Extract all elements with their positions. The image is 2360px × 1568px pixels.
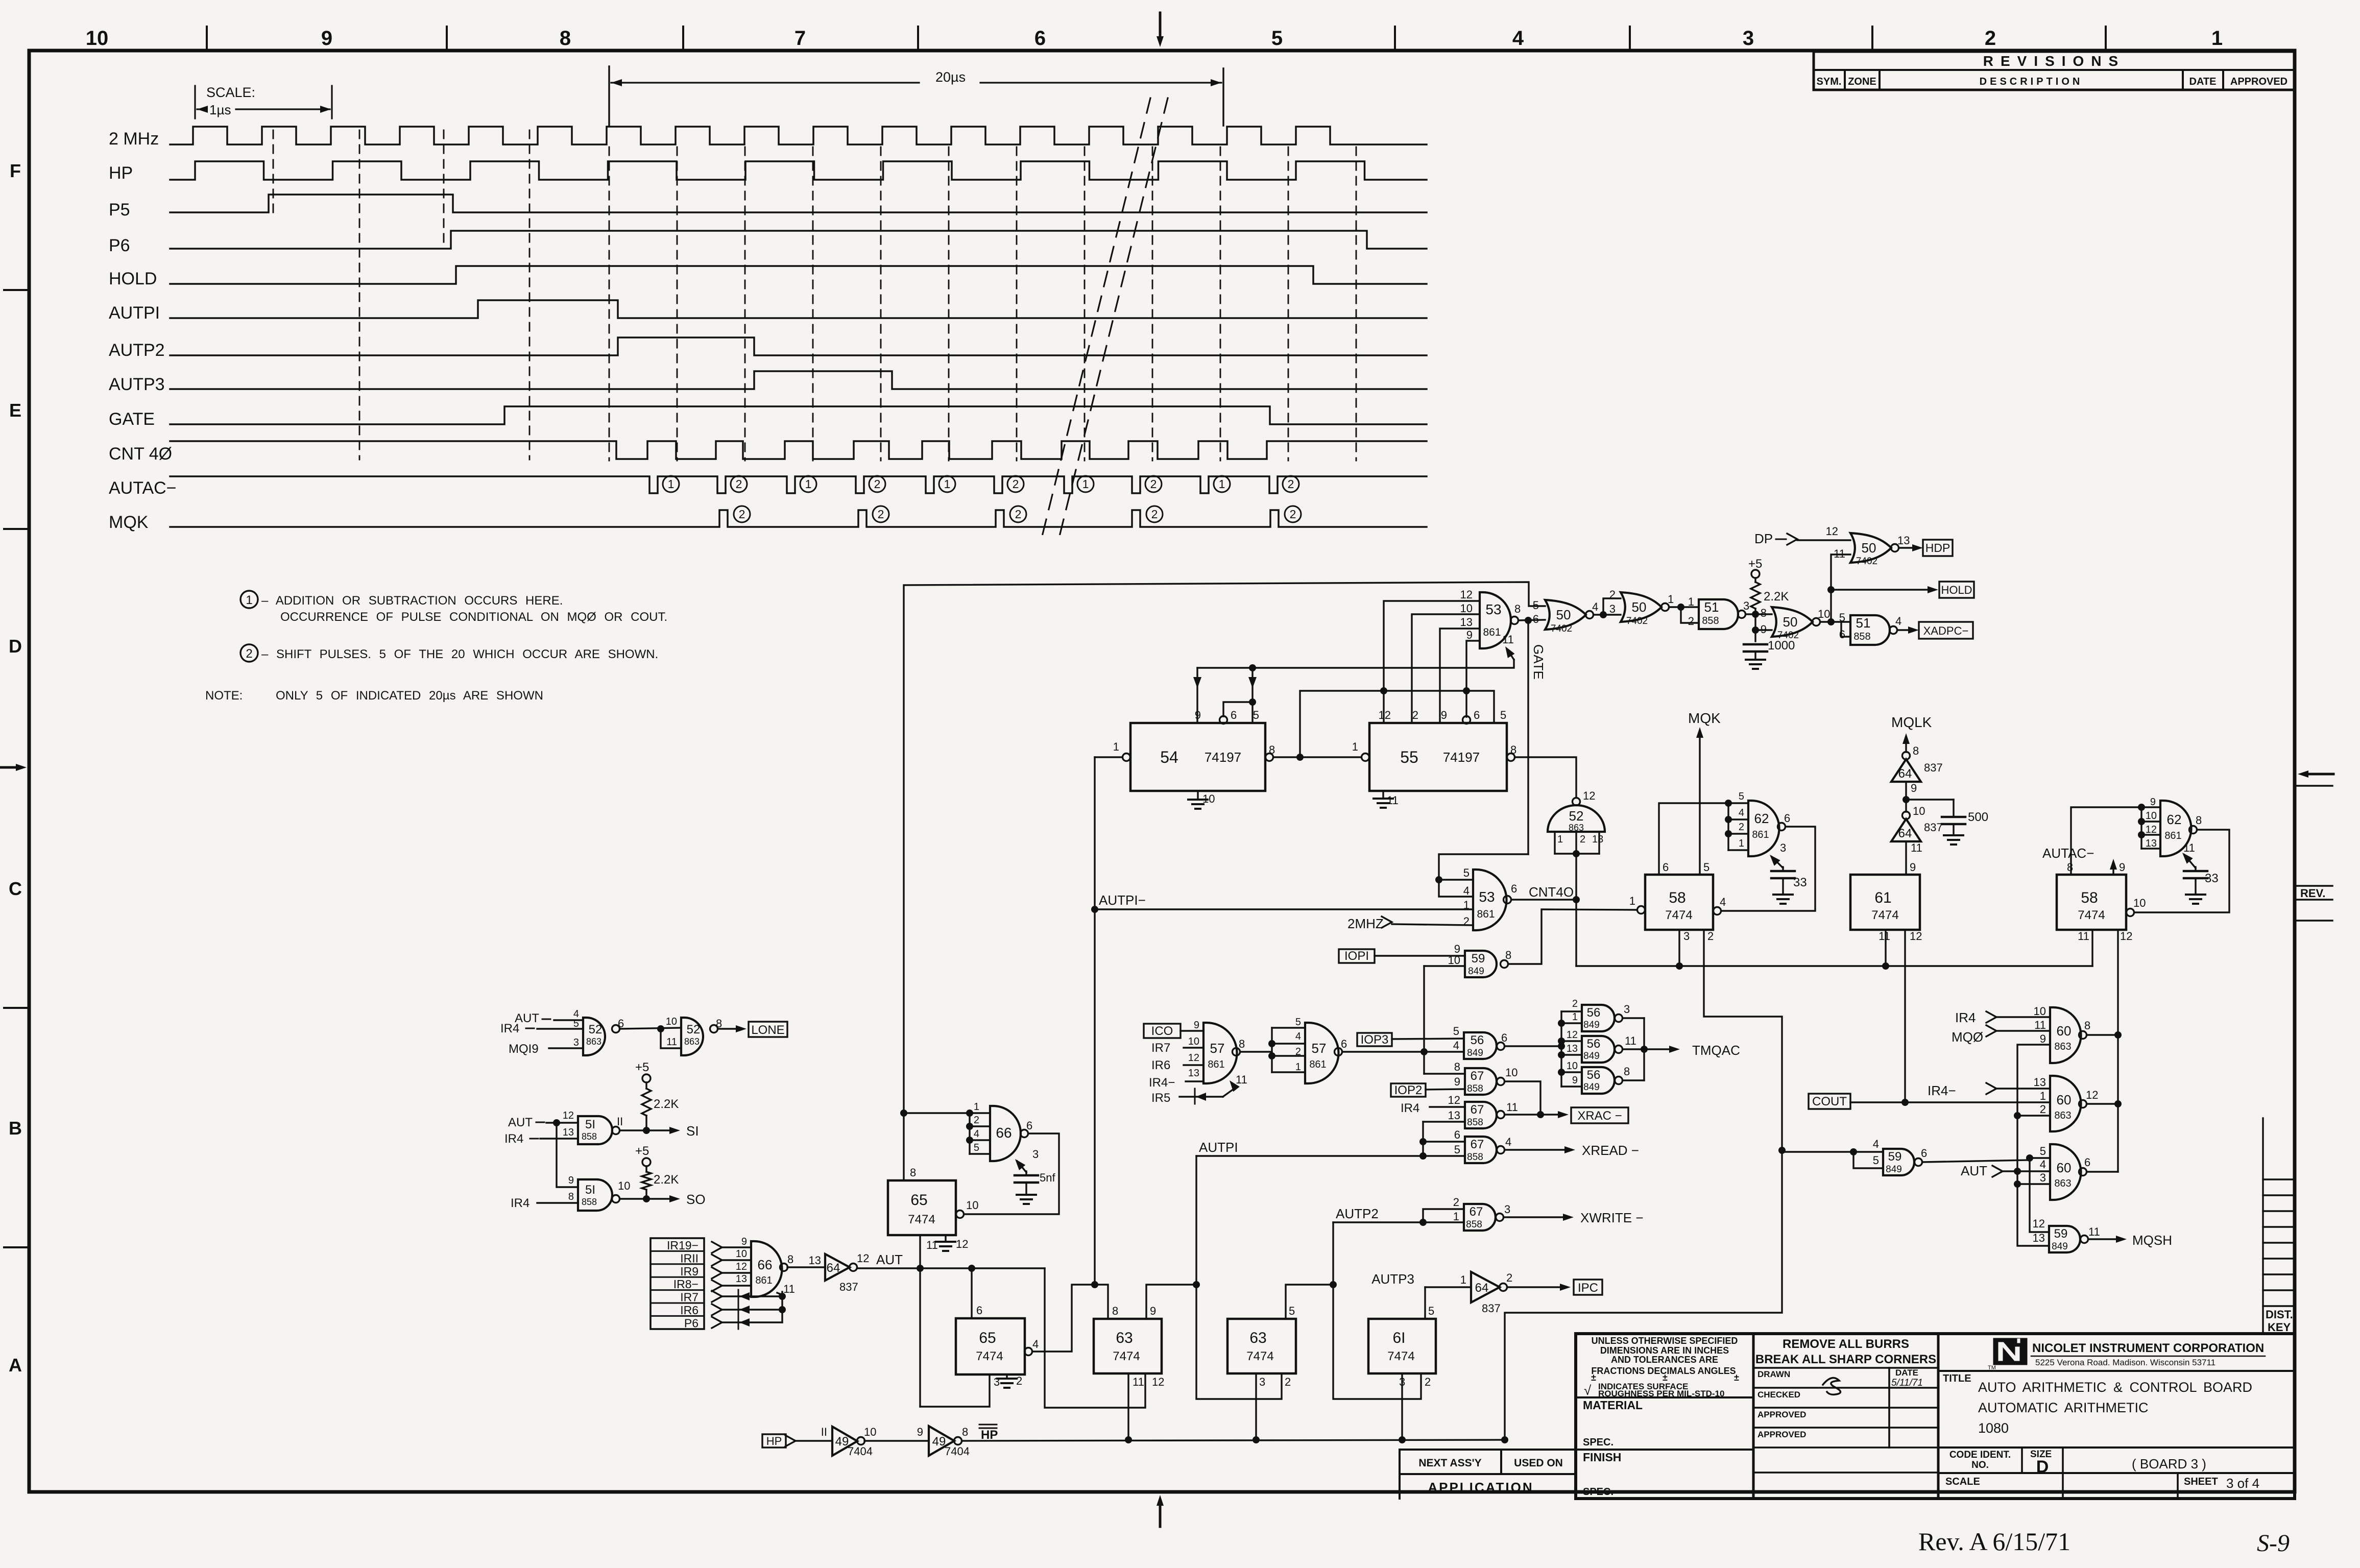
junction	[1752, 626, 1759, 634]
svg-text:500: 500	[1968, 810, 1988, 824]
svg-text:12: 12	[1910, 930, 1922, 943]
svg-text:AUTOMATIC ARITHMETIC: AUTOMATIC ARITHMETIC	[1978, 1400, 2149, 1415]
svg-text:858: 858	[1467, 1083, 1483, 1094]
wire AUT branch to 51D pin9	[557, 1123, 578, 1187]
junction	[1419, 1138, 1427, 1145]
inverter 49A (7404)	[832, 1427, 857, 1456]
svg-text:51: 51	[1856, 615, 1871, 631]
svg-text:10: 10	[618, 1179, 630, 1192]
svg-text:3: 3	[573, 1037, 579, 1048]
counter 54 (74197)	[1130, 723, 1265, 791]
svg-text:10: 10	[864, 1426, 876, 1438]
svg-text:SO: SO	[686, 1192, 706, 1207]
svg-text:1: 1	[1453, 1210, 1459, 1223]
svg-text:60: 60	[2057, 1092, 2072, 1107]
row tick marks left edge	[4, 289, 27, 291]
svg-text:56: 56	[1587, 1037, 1601, 1051]
svg-text:1: 1	[246, 593, 252, 607]
IOPI box	[1339, 949, 1375, 963]
svg-text:AUTP2: AUTP2	[1336, 1206, 1379, 1221]
junction	[1380, 687, 1387, 694]
56 trio output bus	[1643, 1018, 1645, 1080]
svg-text:5: 5	[1463, 866, 1470, 879]
svg-text:66: 66	[758, 1257, 773, 1272]
junction	[1249, 698, 1256, 706]
svg-text:7402: 7402	[1777, 630, 1799, 641]
svg-text:65: 65	[910, 1192, 927, 1209]
wire AUTPI- rail to 53B pin1	[1095, 908, 1473, 910]
svg-text:12: 12	[736, 1261, 747, 1272]
svg-text:13: 13	[2146, 838, 2157, 849]
svg-text:5: 5	[1428, 1305, 1434, 1317]
svg-text:1: 1	[1688, 595, 1694, 608]
svg-text:APPROVED: APPROVED	[2230, 76, 2287, 87]
svg-text:49: 49	[835, 1435, 849, 1449]
svg-text:APPROVED: APPROVED	[1757, 1410, 1806, 1419]
waveform MQK	[170, 510, 1427, 527]
svg-text:3: 3	[1780, 841, 1786, 854]
APPLICATION table	[1400, 1449, 1576, 1451]
gate 66B (861) NAND	[751, 1241, 782, 1297]
svg-text:56: 56	[1587, 1068, 1601, 1082]
circled pulse markers on AUTAC-	[663, 476, 679, 492]
svg-text:863: 863	[684, 1036, 700, 1047]
waveform GATE	[170, 406, 1427, 424]
svg-text:HOLD: HOLD	[109, 269, 157, 288]
svg-text:11: 11	[1133, 1376, 1144, 1388]
svg-text:3: 3	[1683, 930, 1690, 943]
SI output arrow	[669, 1127, 680, 1134]
svg-text:HP: HP	[766, 1435, 782, 1448]
wire 66B out to 64D	[787, 1266, 825, 1268]
junction	[2026, 1154, 2033, 1162]
HDP output box	[1923, 540, 1953, 556]
svg-text:1: 1	[1352, 740, 1358, 753]
svg-text:C: C	[9, 878, 22, 899]
junction	[1558, 1020, 1565, 1027]
wire 58B pin8 riser to 62B bus	[2071, 807, 2141, 875]
gate 67A (858) NAND	[1465, 1068, 1497, 1095]
wire 65B pin4 out to 63A pin8	[1032, 1285, 1108, 1352]
wire 60C pin5 from 59B output	[2030, 1157, 2050, 1159]
svg-text:7402: 7402	[1856, 556, 1877, 567]
wire 63A Q to 63B D loop	[1196, 1285, 1282, 1399]
HPbar rail	[962, 1440, 1505, 1441]
junction	[1268, 1040, 1275, 1047]
label CNT4O and output wire	[1511, 899, 1576, 900]
svg-text:2: 2	[1285, 1376, 1291, 1388]
svg-text:5: 5	[974, 1142, 979, 1153]
svg-text:TMQAC: TMQAC	[1692, 1043, 1740, 1058]
wire 66A out to 65A pin10	[964, 1133, 1059, 1214]
svg-text:7474: 7474	[1113, 1349, 1140, 1363]
svg-text:13: 13	[1897, 534, 1910, 547]
svg-text:USED ON: USED ON	[1514, 1457, 1563, 1469]
svg-text:11: 11	[1236, 1073, 1247, 1086]
svg-text:6I: 6I	[1392, 1330, 1405, 1346]
svg-text:5: 5	[1289, 1305, 1295, 1317]
junction	[1435, 876, 1442, 883]
svg-text:6: 6	[1231, 709, 1237, 721]
junction	[643, 1195, 650, 1202]
flip-flop 63B (7474)	[1227, 1319, 1296, 1373]
svg-text:UNLESS OTHERWISE SPECIFIED: UNLESS OTHERWISE SPECIFIED	[1592, 1336, 1738, 1346]
svg-text:XWRITE −: XWRITE −	[1580, 1210, 1644, 1225]
svg-text:2: 2	[1015, 508, 1022, 521]
svg-text:+5: +5	[635, 1060, 649, 1074]
clock rail wire to flip-flop clocks	[1576, 965, 2092, 967]
flip-flop 65A (7474)	[888, 1180, 956, 1235]
wire 67D pin2 bracket	[1423, 1209, 1464, 1222]
wire 58B pin12 output bus	[2117, 930, 2118, 1172]
waveform P5	[170, 195, 1427, 212]
TMQAC output arrow	[1644, 1048, 1675, 1050]
svg-text:AUTPI: AUTPI	[1199, 1140, 1238, 1155]
junction	[657, 1025, 664, 1032]
wire 50A out to 50B	[1594, 614, 1621, 615]
svg-text:11: 11	[2183, 841, 2195, 854]
gate 60C (863) NAND	[2050, 1144, 2081, 1200]
ground	[1746, 659, 1765, 661]
wire 50C out up to 50D pin11 and HOLD	[1820, 554, 1850, 622]
IPC box	[1574, 1280, 1602, 1295]
junction	[1752, 611, 1759, 618]
gate 56A (849) NAND	[1464, 1032, 1497, 1059]
svg-text:56: 56	[1471, 1033, 1484, 1047]
svg-text:849: 849	[1583, 1051, 1600, 1062]
svg-text:60: 60	[2057, 1160, 2072, 1175]
junction	[1778, 1147, 1786, 1154]
svg-text:13: 13	[1188, 1068, 1199, 1079]
svg-text:61: 61	[1874, 889, 1891, 906]
svg-text:2.2K: 2.2K	[654, 1173, 679, 1187]
svg-text:5: 5	[2040, 1145, 2046, 1157]
svg-text:IR4−: IR4−	[1149, 1076, 1175, 1090]
svg-text:2: 2	[1609, 588, 1616, 601]
svg-text:6: 6	[1511, 882, 1517, 895]
svg-text:SPEC.: SPEC.	[1583, 1486, 1614, 1498]
svg-text:2: 2	[1453, 1196, 1459, 1209]
svg-text:REVISIONS: REVISIONS	[1983, 53, 2125, 69]
wire 58A pin2 to HP net riser	[1505, 930, 1782, 1440]
revision strip rows right edge	[2262, 1118, 2263, 1334]
svg-text:6: 6	[1454, 1128, 1460, 1141]
svg-text:4: 4	[1895, 615, 1901, 628]
note 2 marker	[240, 644, 258, 662]
svg-text:12: 12	[1583, 789, 1595, 802]
inverter 49B (7404)	[929, 1426, 954, 1456]
svg-text:APPLICATION: APPLICATION	[1428, 1480, 1533, 1495]
svg-text:2: 2	[1580, 834, 1585, 845]
junction	[1253, 1436, 1260, 1443]
capacitor 33 to ground	[2195, 867, 2196, 871]
svg-text:5: 5	[1453, 1025, 1459, 1038]
svg-text:59: 59	[2054, 1227, 2068, 1241]
svg-text:50: 50	[1862, 540, 1876, 556]
waveform CNT 40	[170, 441, 1427, 459]
svg-text:58: 58	[1669, 889, 1685, 906]
svg-text:7: 7	[794, 27, 806, 50]
vertical net 54pin1 / AUTPI- / D-chain	[1094, 757, 1095, 1285]
flip-flop 61B (7474)	[1368, 1319, 1436, 1373]
wire jumper to 52C pin11	[661, 1029, 681, 1048]
svg-text:9: 9	[1910, 861, 1916, 874]
wire 52C out to LONE	[718, 1028, 741, 1029]
svg-text:9: 9	[321, 27, 332, 50]
svg-text:858: 858	[582, 1197, 597, 1207]
svg-text:5: 5	[1295, 1017, 1301, 1028]
svg-text:849: 849	[1583, 1082, 1600, 1093]
svg-text:2: 2	[878, 508, 884, 521]
svg-text:3: 3	[994, 1376, 1000, 1388]
svg-text:7474: 7474	[1665, 908, 1692, 922]
svg-text:12: 12	[1152, 1376, 1164, 1388]
svg-text:62: 62	[1754, 811, 1769, 826]
svg-text:3: 3	[1259, 1376, 1265, 1388]
svg-text:HDP: HDP	[1925, 541, 1950, 554]
svg-text:HP: HP	[109, 163, 133, 183]
junction	[1850, 1148, 1857, 1155]
svg-text:5nf: 5nf	[1040, 1171, 1055, 1184]
svg-text:AUT: AUT	[1961, 1163, 1987, 1178]
wire 57B out to 56A pin4	[1342, 1051, 1464, 1052]
svg-text:COUT: COUT	[1812, 1095, 1847, 1108]
svg-text:59: 59	[1472, 952, 1485, 966]
svg-text:54: 54	[1160, 748, 1178, 766]
svg-text:1: 1	[1557, 834, 1563, 845]
middle approvals column	[1937, 1334, 1940, 1499]
wire 61B pin3 clock to HP rail	[1401, 1373, 1403, 1440]
svg-text:S-9: S-9	[2257, 1530, 2290, 1557]
svg-text:66: 66	[996, 1125, 1012, 1141]
svg-text:13: 13	[1460, 616, 1473, 629]
svg-text:11: 11	[1879, 930, 1890, 943]
waveform AUTAC-	[170, 476, 1427, 493]
junction	[1677, 604, 1684, 611]
svg-text:67: 67	[1471, 1103, 1484, 1117]
junction	[1193, 1281, 1200, 1288]
wire diode bus to 66B pin11	[781, 1292, 783, 1322]
svg-text:53: 53	[1479, 889, 1495, 905]
svg-text:11: 11	[1911, 841, 1922, 854]
svg-text:20µs: 20µs	[935, 69, 966, 85]
wire 54 output pin8 to 55 pin1	[1266, 754, 1273, 761]
svg-text:12: 12	[1448, 1094, 1460, 1106]
svg-text:11: 11	[2034, 1019, 2046, 1031]
svg-text:858: 858	[582, 1131, 597, 1142]
flip-flop 65B (7474)	[956, 1318, 1025, 1374]
wire 57A output to 57B inputs	[1240, 1051, 1272, 1052]
gate 51D (858) NAND SO	[578, 1179, 612, 1211]
svg-text:49: 49	[932, 1435, 946, 1449]
svg-text:2 MHz: 2 MHz	[109, 129, 159, 149]
junction	[1399, 1436, 1406, 1443]
svg-text:AUTAC−: AUTAC−	[2042, 846, 2094, 861]
svg-text:HP: HP	[981, 1428, 998, 1442]
svg-text:858: 858	[1466, 1219, 1482, 1230]
svg-text:52: 52	[589, 1023, 603, 1036]
SCALE marker	[194, 86, 196, 118]
svg-text:52: 52	[1569, 808, 1584, 824]
svg-text:7402: 7402	[1626, 616, 1648, 626]
svg-text:6: 6	[1341, 1038, 1347, 1050]
svg-text:XRAC −: XRAC −	[1577, 1109, 1622, 1123]
junction	[1641, 1046, 1648, 1053]
svg-text:8: 8	[1624, 1065, 1630, 1078]
svg-text:50: 50	[1556, 607, 1571, 622]
svg-text:1: 1	[1460, 1273, 1466, 1286]
svg-text:DESCRIPTION: DESCRIPTION	[1980, 76, 2083, 87]
svg-text:74197: 74197	[1443, 750, 1480, 765]
svg-text:1: 1	[668, 477, 675, 491]
svg-text:IR4−: IR4−	[1928, 1083, 1956, 1098]
wire 62B output to 58B pin10	[2134, 830, 2229, 912]
wire DP to 50D pin12	[1797, 539, 1850, 541]
svg-text:9: 9	[1194, 1020, 1199, 1031]
wire clock rail riser 61A pin11	[1885, 930, 1886, 966]
wire 52A pins to CNT40 node	[1575, 854, 1577, 900]
svg-text:MQK: MQK	[109, 513, 149, 532]
gate 53B (861) 4-input NAND	[1473, 870, 1507, 930]
wire 53A pin10 to counter 55 pin 2	[1412, 614, 1480, 723]
wire IOP3 to 56A pin5	[1392, 1039, 1464, 1039]
junction	[1725, 800, 1732, 807]
junction	[1827, 586, 1835, 593]
wire 65B pin6 to 63A pin12 loop	[971, 1268, 972, 1318]
svg-text:– ADDITION OR SUBTRACTION: – ADDITION OR SUBTRACTION OCCURS HERE.	[261, 594, 563, 608]
svg-text:NEXT ASS'Y: NEXT ASS'Y	[1418, 1457, 1481, 1469]
waveform AUTP2	[170, 337, 1427, 355]
svg-text:2: 2	[874, 477, 881, 491]
junction GATE node	[1525, 617, 1532, 624]
+5 supply	[1751, 570, 1760, 578]
wire 63A pin11 clock to HP rail	[1127, 1373, 1129, 1440]
wire 54 out riser to 55 top pins	[1300, 691, 1494, 757]
svg-text:2: 2	[1295, 1046, 1301, 1057]
svg-text:863: 863	[586, 1036, 601, 1047]
svg-text:ZONE: ZONE	[1848, 76, 1876, 87]
ground	[2186, 894, 2205, 896]
junction	[1882, 962, 1889, 970]
waveform AUTPI	[170, 300, 1427, 318]
svg-text:12: 12	[1188, 1052, 1199, 1064]
svg-text:9: 9	[2119, 861, 2125, 874]
svg-text:Rev. A 6/15/71: Rev. A 6/15/71	[1918, 1527, 2070, 1556]
svg-text:10: 10	[2034, 1005, 2046, 1018]
svg-text:MATERIAL: MATERIAL	[1583, 1398, 1643, 1412]
wire 50B out to 51A	[1669, 606, 1699, 608]
gate 62B (861) NAND	[2160, 801, 2192, 856]
junction	[917, 1265, 924, 1272]
wire 51B pin5 from node	[1831, 621, 1850, 622]
CODE IDENT row	[1938, 1446, 2295, 1449]
svg-text:1080: 1080	[1978, 1420, 2009, 1436]
svg-text:7474: 7474	[1246, 1349, 1273, 1363]
wire 65A pin12 ground	[945, 1235, 946, 1242]
svg-text:8: 8	[1913, 744, 1919, 757]
HP input box	[762, 1434, 786, 1448]
wire 65A pin11 to AUT rail	[919, 1235, 921, 1268]
svg-text:12: 12	[2146, 824, 2157, 835]
svg-text:LONE: LONE	[751, 1023, 784, 1037]
66A pin3 arrow from capacitor 5nf	[1017, 1161, 1026, 1172]
svg-text:IPC: IPC	[1578, 1281, 1598, 1295]
IOP2 box	[1391, 1083, 1426, 1097]
svg-text:9: 9	[1911, 782, 1917, 794]
svg-text:2: 2	[1425, 1376, 1431, 1388]
svg-text:13: 13	[1448, 1109, 1460, 1122]
svg-text:10: 10	[1188, 1036, 1199, 1047]
svg-text:849: 849	[1468, 966, 1484, 977]
svg-text:13: 13	[809, 1254, 821, 1267]
svg-text:4: 4	[1592, 600, 1598, 613]
svg-text:6: 6	[1784, 812, 1790, 825]
AUTP2 rail into 67D	[1333, 1221, 1464, 1223]
svg-text:REMOVE ALL BURRS: REMOVE ALL BURRS	[1783, 1337, 1909, 1351]
svg-text:IR9: IR9	[680, 1265, 699, 1278]
wire HOLD tap	[1831, 589, 1933, 590]
junction	[553, 1119, 560, 1126]
svg-text:E: E	[9, 400, 21, 421]
svg-text:IOPI: IOPI	[1344, 949, 1369, 963]
svg-text:6: 6	[1663, 861, 1669, 874]
svg-text:7474: 7474	[976, 1349, 1003, 1363]
svg-text:±: ±	[1663, 1372, 1668, 1383]
wire 51A out to node	[1746, 613, 1772, 615]
svg-text:55: 55	[1400, 748, 1418, 766]
svg-text:63: 63	[1249, 1330, 1266, 1346]
svg-text:SI: SI	[686, 1123, 699, 1139]
svg-text:AUT: AUT	[508, 1116, 533, 1129]
note 1 marker	[240, 591, 258, 608]
svg-text:8: 8	[1454, 1060, 1460, 1073]
svg-text:CODE IDENT.: CODE IDENT.	[1949, 1450, 2011, 1460]
wire 55 pin11 ground	[1382, 791, 1384, 799]
wire 60A output to bus	[2087, 1034, 2118, 1035]
wire 62A input bus	[1727, 803, 1729, 850]
junction	[1091, 1281, 1098, 1288]
wire AUTPI riser	[1195, 1156, 1197, 1285]
gate 50A (7402) NOR	[1545, 600, 1586, 630]
circled pulse markers on MQK	[734, 506, 750, 522]
svg-text:+5: +5	[635, 1144, 649, 1158]
svg-text:MQLK: MQLK	[1891, 714, 1932, 730]
wire 54 pin6 bubble jog	[1220, 716, 1227, 724]
wire 63B Q to 61B D loop	[1333, 1285, 1421, 1399]
svg-text:2: 2	[1288, 477, 1294, 491]
vertical net 59A.10/56A.4/67A.8	[1423, 966, 1425, 1074]
svg-text:861: 861	[1208, 1059, 1224, 1070]
svg-text:√: √	[1584, 1383, 1592, 1398]
svg-text:II: II	[617, 1115, 623, 1128]
svg-text:MQØ: MQØ	[1952, 1029, 1983, 1045]
zone tick marks top edge	[206, 27, 208, 49]
wire 54 pin10 ground	[1197, 791, 1198, 800]
svg-text:9: 9	[1761, 623, 1767, 636]
svg-text:33: 33	[1793, 876, 1807, 889]
svg-text:4: 4	[1739, 807, 1744, 818]
svg-text:FINISH: FINISH	[1583, 1451, 1621, 1464]
svg-text:1: 1	[2040, 1090, 2046, 1102]
svg-text:2: 2	[1151, 508, 1158, 521]
svg-text:60: 60	[2057, 1023, 2072, 1039]
svg-text:8: 8	[787, 1253, 793, 1266]
wire XREAD branch to 59B pins	[1782, 1151, 1883, 1152]
svg-text:4: 4	[2040, 1158, 2046, 1171]
svg-text:1: 1	[1113, 740, 1119, 753]
svg-text:IRII: IRII	[680, 1251, 699, 1265]
wire 59B output to 60C pin5 / 59C pin12	[1922, 1160, 2030, 1162]
